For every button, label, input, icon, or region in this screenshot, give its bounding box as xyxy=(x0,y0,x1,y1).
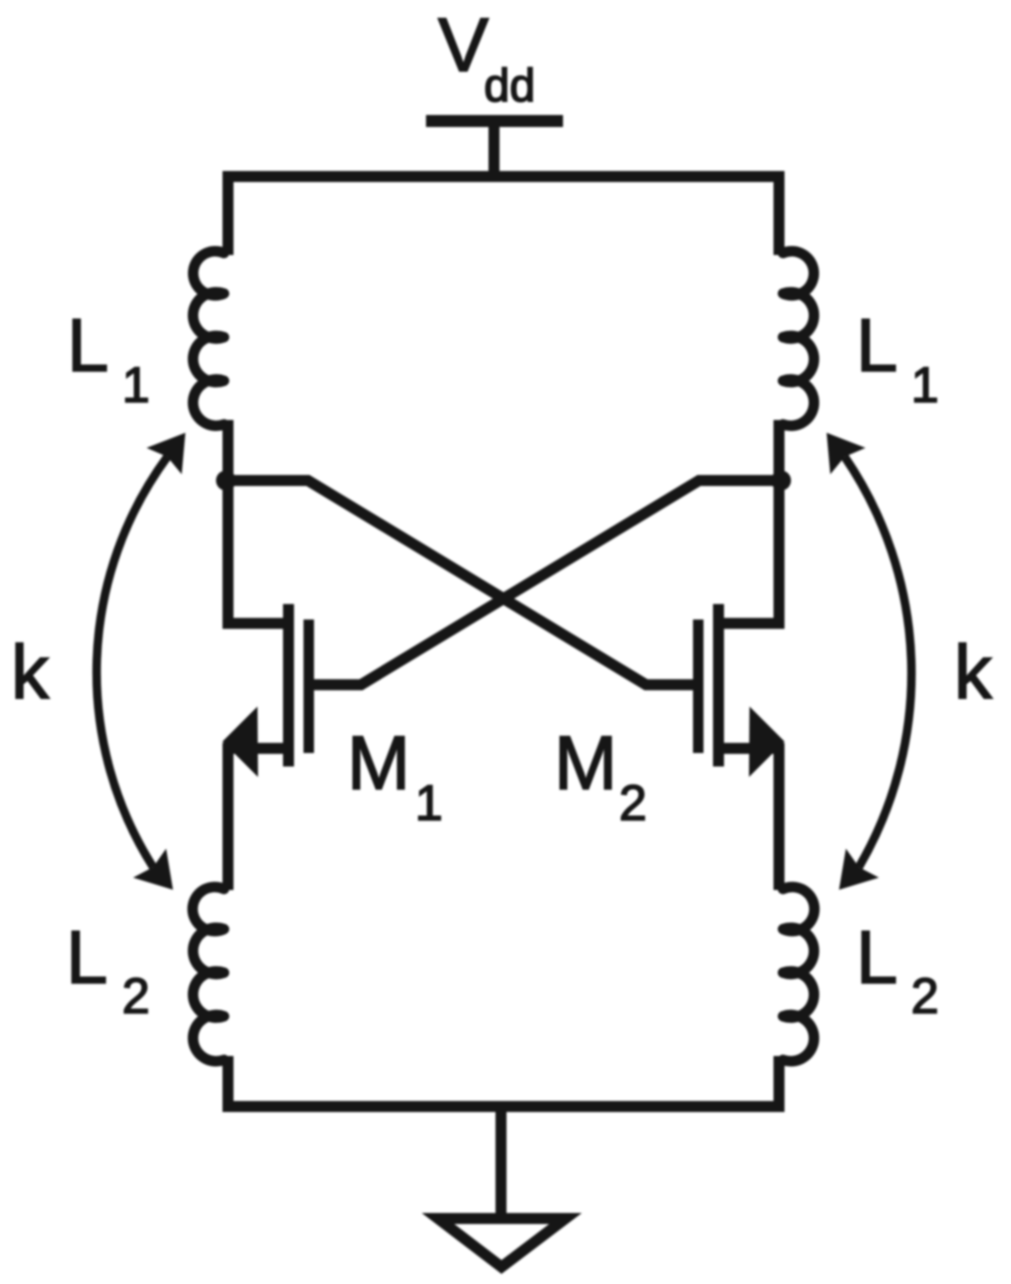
transistor M2 channel bar xyxy=(713,604,724,767)
svg-text:2: 2 xyxy=(911,968,939,1024)
svg-text:1: 1 xyxy=(122,357,150,413)
node B right drain junction dot xyxy=(771,471,791,491)
svg-text:M: M xyxy=(347,721,410,806)
svg-text:2: 2 xyxy=(619,775,647,831)
transistor M2 gate bar xyxy=(693,620,704,754)
svg-text:2: 2 xyxy=(122,968,150,1024)
node A left drain junction dot xyxy=(216,471,236,491)
coupling arrow k left top head xyxy=(147,433,186,475)
svg-text:1: 1 xyxy=(415,775,443,831)
coupling arrow k right bottom head xyxy=(839,849,879,890)
svg-text:L: L xyxy=(66,915,108,999)
power Vdd bar xyxy=(426,115,563,127)
transistor M2 source arrow xyxy=(749,707,785,778)
coupling arrow k right top head xyxy=(827,433,866,475)
svg-text:1: 1 xyxy=(911,357,939,413)
wire top rail xyxy=(228,177,779,256)
ground xyxy=(438,1219,566,1268)
transistor M1 source arrow xyxy=(223,707,259,778)
wire cross-couple right drain to M1 gate xyxy=(310,481,779,685)
inductor L1 left coil xyxy=(193,251,224,426)
wire bottom rail xyxy=(228,1056,779,1107)
coupling arrow k left bottom head xyxy=(133,849,173,890)
svg-text:V: V xyxy=(438,3,489,88)
wire Vdd stub xyxy=(489,127,500,172)
inductor L1 right coil xyxy=(783,251,814,426)
svg-text:M: M xyxy=(554,721,617,806)
svg-text:L: L xyxy=(67,303,109,387)
inductor L2 right coil xyxy=(783,887,814,1061)
transistor M1 gate bar xyxy=(304,620,315,754)
wire left drain branch xyxy=(228,420,288,623)
coupling arrow k right arc xyxy=(845,457,912,867)
wire right drain branch xyxy=(719,420,779,623)
svg-text:L: L xyxy=(856,303,898,387)
wire left source branch xyxy=(228,748,288,890)
inductor L2 left coil xyxy=(193,887,224,1061)
svg-text:k: k xyxy=(11,630,50,715)
svg-text:L: L xyxy=(856,915,898,999)
svg-text:dd: dd xyxy=(484,59,535,111)
wire right source branch xyxy=(719,748,779,890)
transistor M1 channel bar xyxy=(283,604,294,767)
svg-text:k: k xyxy=(954,630,993,715)
wire cross-couple left drain to M2 gate xyxy=(228,481,697,685)
wire ground stub xyxy=(496,1112,507,1219)
coupling arrow k left arc xyxy=(97,457,168,867)
